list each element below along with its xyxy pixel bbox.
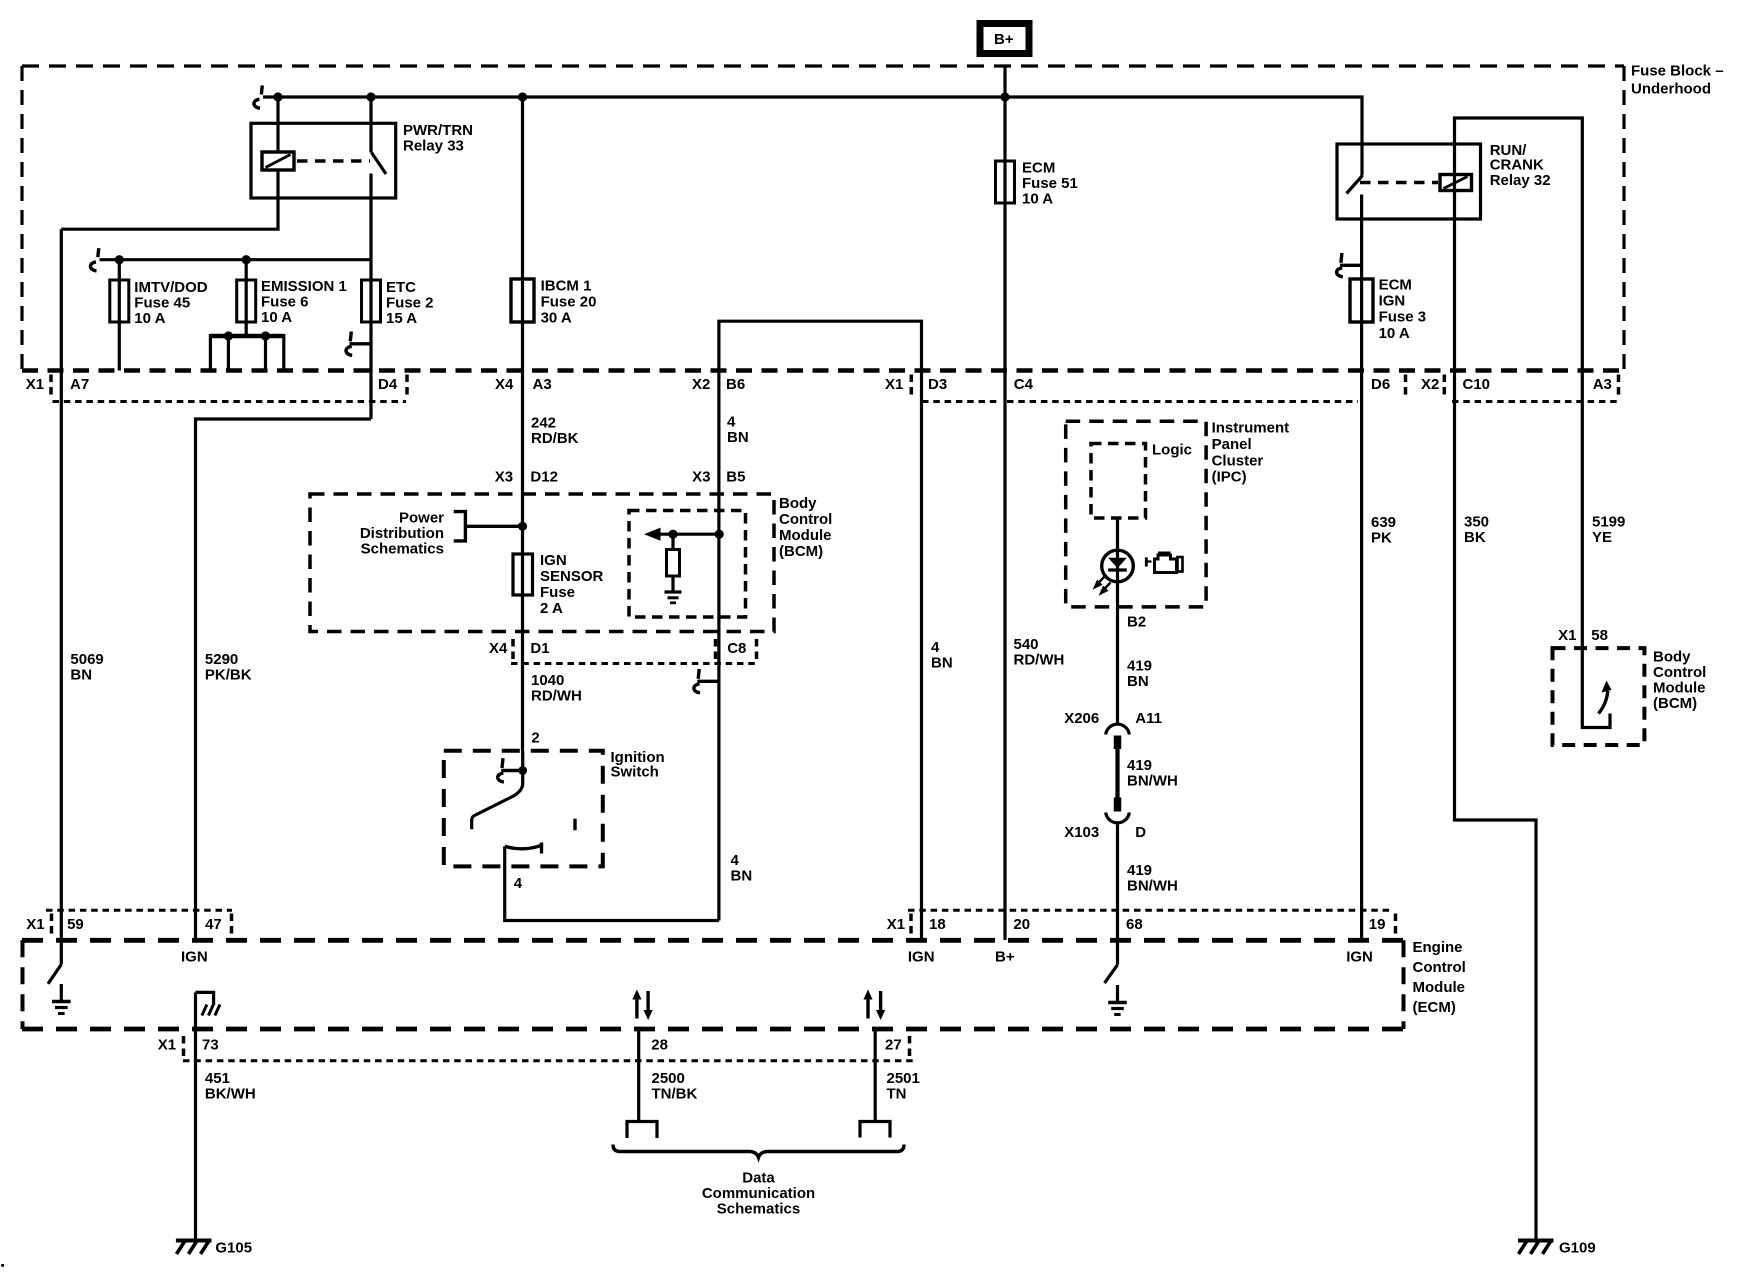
svg-text:Relay 33: Relay 33 — [403, 138, 464, 155]
svg-text:4: 4 — [514, 875, 523, 892]
ECM bottom pin labels — [158, 1037, 902, 1054]
svg-text:Panel: Panel — [1212, 436, 1252, 453]
wire: relay 32 switch output down through ECM IGN fuse to ECM pin 19 — [1360, 195, 1363, 941]
svg-text:68: 68 — [1126, 916, 1143, 933]
svg-text:BN: BN — [70, 667, 92, 684]
svg-text:Body: Body — [779, 495, 817, 512]
junction node arrow/resistor — [668, 530, 677, 539]
svg-text:Data: Data — [742, 1170, 775, 1187]
ECM pin labels — [26, 916, 1385, 933]
svg-text:RD/WH: RD/WH — [531, 688, 582, 705]
svg-text:15 A: 15 A — [386, 310, 417, 327]
svg-text:TN/BK: TN/BK — [652, 1086, 698, 1103]
wire label 1040 RD/WH — [531, 672, 582, 705]
svg-text:Fuse: Fuse — [540, 584, 575, 601]
svg-text:X1: X1 — [887, 916, 905, 933]
wire: 5199 YE down into BCM — [1582, 371, 1610, 728]
splice hook at left end of B+ bus — [254, 86, 262, 109]
label: Power Distribution Schematics — [360, 510, 444, 558]
svg-text:A3: A3 — [533, 376, 552, 393]
svg-text:10 A: 10 A — [1022, 191, 1053, 208]
svg-text:18: 18 — [929, 916, 946, 933]
B+ power symbol box — [980, 24, 1029, 54]
wire: pin 73 down to G105 — [194, 992, 197, 1239]
svg-text:4: 4 — [731, 852, 740, 869]
svg-text:5199: 5199 — [1592, 514, 1625, 531]
page mark dot — [1, 1264, 4, 1267]
BCM resistor ground — [665, 576, 682, 603]
wire: IMTV/DOD fuse feed — [118, 260, 121, 371]
wire: D4 jog to 5290 line — [196, 419, 372, 941]
svg-text:D: D — [1135, 824, 1146, 841]
svg-text:10 A: 10 A — [261, 309, 292, 326]
run contact tick — [573, 819, 576, 831]
svg-text:19: 19 — [1369, 916, 1386, 933]
svg-text:5290: 5290 — [205, 651, 238, 668]
relay 33 switch input — [369, 97, 372, 153]
connector X103 labels — [1064, 824, 1146, 841]
wire label 2500 TN/BK — [652, 1070, 698, 1103]
svg-text:350: 350 — [1464, 514, 1489, 531]
svg-text:X2: X2 — [692, 376, 710, 393]
wire label 5069 BN — [70, 651, 103, 684]
pin separator right of C8 — [755, 639, 759, 661]
wire: logic to MIL lamp to pin B2 down to ECM pin 68 — [1116, 518, 1119, 723]
svg-text:ECM: ECM — [1379, 277, 1412, 294]
pin labels row 1 — [26, 376, 1612, 393]
svg-text:BN: BN — [1127, 673, 1149, 690]
svg-text:Control: Control — [1653, 664, 1706, 681]
label: IMTV/DOD Fuse 45 10 A — [134, 279, 207, 327]
junction node: bus to B+ / ECM fuse 51 — [1000, 92, 1009, 101]
BCM driver arrowhead — [1602, 681, 1612, 693]
svg-text:419: 419 — [1127, 862, 1152, 879]
LED triangle — [1108, 558, 1127, 569]
wire label 419 BN/WH lower — [1127, 862, 1178, 895]
svg-text:419: 419 — [1127, 658, 1152, 675]
pin labels row X4|D1 C8 — [489, 640, 746, 657]
ignition switch dashed box — [444, 751, 603, 867]
svg-text:59: 59 — [67, 916, 84, 933]
svg-text:4: 4 — [931, 639, 940, 656]
splice hook on ETC line — [346, 332, 371, 356]
svg-text:419: 419 — [1127, 757, 1152, 774]
fine dotted connector line segment D3-C4 — [922, 400, 1001, 403]
wire label 4 BN at D3 drop — [931, 639, 953, 672]
svg-text:BN: BN — [931, 655, 953, 672]
svg-text:D3: D3 — [928, 376, 947, 393]
svg-text:TN: TN — [887, 1086, 907, 1103]
comb tooth 3 — [264, 336, 267, 371]
svg-text:2: 2 — [531, 730, 539, 747]
connector X103 symbol — [1106, 798, 1130, 823]
fuse IBCM 1 Fuse 20 — [511, 279, 534, 322]
svg-text:242: 242 — [531, 415, 556, 432]
wire: relay 33 switch output down to fused bus — [369, 174, 372, 260]
svg-text:RD/WH: RD/WH — [1014, 652, 1065, 669]
IPC dashed box — [1066, 421, 1206, 607]
fuse ETC Fuse 2 — [362, 280, 381, 322]
bracket from power distribution label to wire — [454, 512, 523, 541]
svg-text:451: 451 — [205, 1070, 230, 1087]
label: Data Communication Schematics — [702, 1170, 815, 1218]
relay 33 coil — [262, 152, 294, 170]
logic dashed box — [1091, 444, 1146, 519]
svg-text:RD/BK: RD/BK — [531, 430, 579, 447]
wire: data pin 27 to terminator — [874, 1029, 877, 1122]
svg-text:2 A: 2 A — [540, 600, 563, 617]
wire: EMISSION 1 fuse feed — [245, 260, 248, 336]
svg-text:Module: Module — [1413, 979, 1466, 996]
svg-text:PWR/TRN: PWR/TRN — [403, 122, 473, 139]
svg-text:ETC: ETC — [386, 279, 416, 296]
svg-text:X103: X103 — [1064, 824, 1099, 841]
svg-text:30 A: 30 A — [541, 310, 572, 327]
fine dotted connector line above ECM pins 18-19 — [908, 909, 1392, 912]
brace for data communication — [613, 1145, 904, 1158]
label: Engine Control Module (ECM) — [1413, 939, 1466, 1016]
wire label 4 BN below B6 — [727, 414, 749, 447]
wire: X206 to X103 — [1115, 749, 1119, 798]
chassis ground G109 — [1518, 1241, 1554, 1255]
svg-text:540: 540 — [1014, 636, 1039, 653]
svg-text:BK/WH: BK/WH — [205, 1086, 256, 1103]
svg-text:Engine: Engine — [1413, 939, 1463, 956]
LED cathode bar — [1108, 568, 1127, 571]
svg-text:Fuse 6: Fuse 6 — [261, 294, 309, 311]
ECM pin separators — [50, 914, 54, 936]
fine dotted connector line below ECM bottom pins — [183, 1059, 916, 1062]
fine dotted connector line segment C10-A3 — [1452, 400, 1620, 403]
relay 33 coil wire from bus — [276, 97, 279, 152]
svg-text:Cluster: Cluster — [1212, 453, 1264, 470]
ECM internal switch at pin 59 — [48, 964, 61, 983]
svg-text:PK/BK: PK/BK — [205, 667, 252, 684]
pin separator left of C8 — [714, 639, 718, 661]
svg-text:BN/WH: BN/WH — [1127, 878, 1178, 895]
pin separator after A3 right — [1617, 375, 1621, 397]
svg-text:639: 639 — [1371, 514, 1396, 531]
check engine icon — [1146, 552, 1182, 573]
connector X206 symbol — [1106, 724, 1130, 749]
svg-text:C10: C10 — [1463, 376, 1491, 393]
pin separator after D4 — [405, 375, 409, 397]
fuse block - underhood dashed box — [22, 66, 1624, 371]
svg-text:B+: B+ — [995, 949, 1015, 966]
relay PWR/TRN Relay 33 box — [251, 123, 396, 198]
power distribution schematics dashed box — [310, 494, 774, 632]
svg-text:A7: A7 — [70, 376, 89, 393]
BCM pull-down resistor — [671, 534, 674, 549]
ECM internal chassis ground at pin 47 line — [196, 992, 220, 1015]
wire label 242 RD/BK — [531, 415, 579, 448]
svg-text:Underhood: Underhood — [1631, 81, 1711, 98]
junction node: bus to IBCM fuse wire — [518, 92, 527, 101]
svg-text:X1: X1 — [26, 916, 44, 933]
MIL indicator LED circle — [1102, 550, 1134, 582]
svg-text:X1: X1 — [26, 376, 44, 393]
junction node: bus2 to IMTV fuse — [115, 255, 124, 264]
wire label 451 BK/WH — [205, 1070, 256, 1103]
splice hook on ECM IGN line — [1337, 253, 1362, 277]
svg-text:X1: X1 — [158, 1037, 176, 1054]
svg-text:X3: X3 — [692, 469, 710, 486]
svg-text:Fuse 3: Fuse 3 — [1379, 309, 1427, 326]
ECM dashed box — [22, 940, 1404, 1029]
fuse IGN SENSOR Fuse 2 A — [513, 554, 533, 595]
svg-text:20: 20 — [1013, 916, 1030, 933]
fine dotted connector line above ECM pins 59-47 — [46, 909, 232, 912]
junction node at switch pivot — [518, 766, 527, 775]
svg-text:CRANK: CRANK — [1490, 157, 1544, 174]
wire: relay 33 coil bottom to A7 elbow — [61, 170, 278, 229]
svg-text:B2: B2 — [1127, 614, 1146, 631]
fuse ECM Fuse 51 — [996, 161, 1015, 203]
svg-text:IGN: IGN — [1346, 949, 1373, 966]
wire label 5199 YE — [1592, 514, 1625, 547]
svg-text:Fuse Block –: Fuse Block – — [1631, 63, 1724, 80]
wire: X103 down to ECM pin 68 — [1116, 825, 1119, 965]
svg-text:IBCM 1: IBCM 1 — [541, 278, 592, 295]
label: Body Control Module (BCM) middle — [779, 495, 832, 560]
wire label 419 BN/WH — [1127, 757, 1178, 790]
svg-text:IGN: IGN — [540, 552, 567, 569]
junction node: bus to relay coil — [273, 92, 282, 101]
svg-text:Control: Control — [779, 511, 832, 528]
svg-text:G105: G105 — [215, 1240, 252, 1257]
label: ECM IGN Fuse 3 10 A — [1379, 277, 1427, 343]
fuse EMISSION 1 Fuse 6 — [237, 280, 256, 322]
wire: fused bus 2 — [100, 258, 372, 261]
svg-text:EMISSION 1: EMISSION 1 — [261, 278, 347, 295]
BCM right dashed box — [1553, 648, 1645, 745]
svg-text:Logic: Logic — [1152, 442, 1192, 459]
svg-text:Fuse 2: Fuse 2 — [386, 295, 434, 312]
svg-text:PK: PK — [1371, 530, 1392, 547]
svg-text:(IPC): (IPC) — [1212, 469, 1247, 486]
earth ground at pin 68 — [1108, 985, 1127, 1015]
wire: ETC fuse line down through D4 — [369, 260, 372, 419]
svg-text:X4: X4 — [489, 640, 508, 657]
serial data arrows at pin 28 — [632, 990, 652, 1021]
svg-text:D1: D1 — [530, 640, 549, 657]
wire label 350 BK — [1464, 514, 1489, 547]
BCM internal driver blade — [1599, 691, 1608, 714]
splice hook at switch input — [498, 758, 523, 782]
junction node arrow/B5 wire — [715, 530, 724, 539]
svg-text:G109: G109 — [1559, 1240, 1596, 1257]
wire label 639 PK — [1371, 514, 1396, 547]
svg-text:Instrument: Instrument — [1212, 420, 1290, 437]
svg-text:(BCM): (BCM) — [779, 543, 823, 560]
svg-text:Relay 32: Relay 32 — [1490, 172, 1551, 189]
junction node on D12 wire at bracket — [518, 522, 527, 531]
wire: IBCM fuse line from bus down to ignition switch — [521, 97, 524, 751]
svg-text:10 A: 10 A — [1379, 325, 1410, 342]
relay 33 switch blade — [372, 153, 387, 175]
relay 32 coil — [1440, 175, 1472, 191]
wire label 419 BN — [1127, 658, 1152, 691]
svg-text:IMTV/DOD: IMTV/DOD — [134, 279, 207, 296]
svg-text:X2: X2 — [1421, 376, 1439, 393]
wire: data pin 28 to terminator — [637, 1029, 640, 1122]
svg-text:27: 27 — [885, 1037, 902, 1054]
svg-text:ECM: ECM — [1022, 160, 1055, 177]
svg-text:B5: B5 — [726, 469, 745, 486]
wire: B+ drop to bus and down through ECM Fuse 51 to ECM pin 20 — [1003, 66, 1006, 940]
label: IBCM 1 Fuse 20 30 A — [541, 278, 597, 327]
svg-text:X1: X1 — [1558, 627, 1576, 644]
svg-text:X3: X3 — [495, 469, 513, 486]
svg-text:(ECM): (ECM) — [1413, 999, 1456, 1016]
comb tooth 1 — [209, 334, 212, 371]
relay 33 coil control dashed link — [297, 159, 370, 163]
wire label 5290 PK/BK — [205, 651, 252, 684]
fine dotted connector line segment C4-D6 — [1007, 400, 1358, 403]
svg-text:Schematics: Schematics — [361, 541, 444, 558]
svg-text:C8: C8 — [727, 640, 746, 657]
junction node on comb bar right — [261, 331, 270, 340]
label: PWR/TRN Relay 33 — [403, 122, 473, 155]
svg-text:Fuse 20: Fuse 20 — [541, 294, 597, 311]
svg-text:B+: B+ — [994, 31, 1014, 48]
connector X206 labels — [1064, 710, 1162, 727]
label: IGN SENSOR Fuse 2 A — [540, 552, 604, 617]
pin separator X1|D3 — [910, 375, 914, 397]
label: Fuse Block - Underhood — [1631, 63, 1724, 98]
label: Ignition Switch — [611, 749, 665, 781]
svg-text:IGN: IGN — [908, 949, 935, 966]
comb tooth 4 — [282, 334, 285, 371]
ECM internal switch at pin 68 — [1105, 965, 1118, 983]
splice hook below C8 — [694, 669, 719, 693]
BCM pin labels X1 58 — [1558, 627, 1608, 644]
wire: ignition switch output to C8 riser — [505, 847, 719, 921]
svg-text:58: 58 — [1591, 627, 1608, 644]
junction node: bus2 to EMISSION fuse — [242, 255, 251, 264]
svg-text:Schematics: Schematics — [717, 1201, 800, 1218]
wire label 2501 TN — [887, 1070, 920, 1103]
comb tooth 2 — [227, 336, 230, 371]
label: EMISSION 1 Fuse 6 10 A — [261, 278, 347, 326]
terminator at 2501 — [860, 1122, 890, 1138]
relay 32 coil control dashed link — [1360, 181, 1438, 185]
svg-text:C4: C4 — [1014, 376, 1034, 393]
pin separator X1|A7 — [49, 375, 53, 397]
junction node on comb bar left — [224, 331, 233, 340]
relay RUN/CRANK Relay 32 box — [1337, 144, 1481, 219]
svg-text:(BCM): (BCM) — [1653, 695, 1697, 712]
svg-text:SENSOR: SENSOR — [540, 568, 604, 585]
svg-text:Switch: Switch — [611, 764, 659, 781]
svg-text:IGN: IGN — [181, 949, 208, 966]
svg-text:X4: X4 — [495, 376, 514, 393]
junction node: bus to relay switch — [366, 92, 375, 101]
LED light arrows — [1095, 577, 1111, 594]
BCM signal arrow line — [658, 533, 719, 536]
pin separator after D6 — [1404, 375, 1408, 397]
wire: relay 32 coil elbow to A3 feed — [1455, 118, 1583, 371]
svg-text:D4: D4 — [378, 376, 398, 393]
svg-text:A11: A11 — [1135, 710, 1162, 727]
earth ground at pin 59 — [52, 984, 71, 1014]
svg-text:Communication: Communication — [702, 1185, 815, 1202]
svg-text:BN/WH: BN/WH — [1127, 773, 1178, 790]
wire: coil through-wire down to pin C10 — [1453, 175, 1456, 371]
chassis ground G105 — [176, 1241, 212, 1255]
wire label 540 RD/WH — [1014, 636, 1065, 669]
svg-text:Power: Power — [399, 510, 444, 527]
svg-text:X206: X206 — [1064, 710, 1099, 727]
wire: main B+ bus — [263, 97, 1362, 176]
svg-text:IGN: IGN — [1379, 293, 1406, 310]
svg-text:D6: D6 — [1371, 376, 1390, 393]
ECM bottom pin separators — [182, 1036, 186, 1058]
svg-text:Distribution: Distribution — [360, 525, 444, 542]
fine dotted connector line under D1-C8 — [511, 662, 756, 665]
emission fuse output comb bar — [210, 334, 283, 339]
pin labels row X3|D12 X3|B5 — [495, 469, 746, 486]
svg-text:Control: Control — [1413, 959, 1466, 976]
splice hook at left end of fused bus — [90, 248, 98, 271]
svg-text:47: 47 — [205, 916, 222, 933]
svg-text:2501: 2501 — [887, 1070, 920, 1087]
relay 32 switch blade — [1347, 176, 1363, 194]
svg-text:4: 4 — [727, 414, 736, 431]
label: Body Control Module (BCM) right — [1653, 649, 1706, 713]
label: RUN/CRANK Relay 32 — [1490, 142, 1551, 189]
ECM pin function labels — [181, 949, 1373, 966]
svg-text:Fuse 45: Fuse 45 — [134, 295, 190, 312]
svg-text:10 A: 10 A — [134, 310, 165, 327]
svg-text:28: 28 — [651, 1037, 668, 1054]
wire: riser to C8 and BCM loop over to D3 — [719, 321, 922, 940]
wire: 350 BK C10 to G109 — [1455, 371, 1537, 1240]
svg-text:5069: 5069 — [70, 651, 103, 668]
terminator at 2500 — [627, 1122, 657, 1139]
wire: A7 / 5069 BN down to ECM pin 59 — [60, 229, 63, 964]
svg-text:Module: Module — [1653, 680, 1706, 697]
BCM arrowhead — [644, 528, 661, 541]
fine dotted connector line segment under A7-D4 — [53, 400, 407, 403]
label: ECM Fuse 51 10 A — [1022, 160, 1078, 208]
wire label 4 BN at ignition output — [731, 852, 753, 885]
svg-text:YE: YE — [1592, 529, 1612, 546]
svg-text:1040: 1040 — [531, 672, 564, 689]
fuse IMTV/DOD Fuse 45 — [110, 280, 129, 322]
svg-text:BK: BK — [1464, 529, 1486, 546]
svg-text:73: 73 — [202, 1037, 219, 1054]
pin separator after X4 — [511, 639, 515, 661]
svg-text:X1: X1 — [885, 376, 903, 393]
BCM inner dashed box — [629, 511, 746, 618]
pin separator after X2 right — [1443, 375, 1447, 397]
svg-text:Fuse 51: Fuse 51 — [1022, 175, 1078, 192]
serial data arrows at pin 27 — [863, 990, 885, 1021]
svg-text:Body: Body — [1653, 649, 1691, 666]
svg-text:B6: B6 — [726, 376, 745, 393]
label: Instrument Panel Cluster (IPC) — [1212, 420, 1290, 486]
switch blade — [472, 751, 523, 830]
svg-text:BN: BN — [731, 868, 753, 885]
lower contact arc — [505, 843, 542, 854]
svg-text:BN: BN — [727, 429, 749, 446]
svg-text:A3: A3 — [1593, 376, 1612, 393]
svg-text:2500: 2500 — [652, 1070, 685, 1087]
svg-text:Module: Module — [779, 527, 832, 544]
label: ETC Fuse 2 15 A — [386, 279, 434, 327]
fuse ECM IGN Fuse 3 — [1350, 279, 1373, 322]
